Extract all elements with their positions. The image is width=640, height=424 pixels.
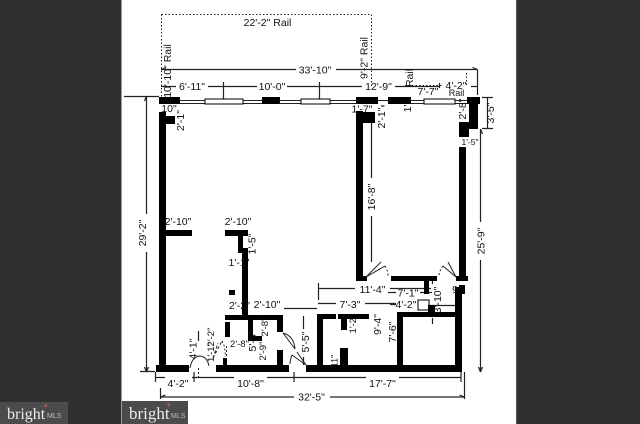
svg-text:10'-10" Rail: 10'-10" Rail [162,44,174,98]
svg-text:7'-6": 7'-6" [387,321,399,342]
svg-text:6'-11": 6'-11" [179,81,205,93]
svg-text:11": 11" [330,355,340,368]
svg-text:2'-10": 2'-10" [254,299,281,311]
svg-text:16'-8": 16'-8" [366,183,378,210]
svg-text:9: 9 [452,284,458,296]
svg-text:2'-8": 2'-8" [457,98,469,119]
svg-text:9'-4": 9'-4" [372,314,384,335]
svg-text:MLS: MLS [171,413,186,420]
svg-text:32'-5": 32'-5" [298,392,325,404]
svg-text:7'-1": 7'-1" [398,288,419,300]
svg-text:7'-7": 7'-7" [418,86,439,98]
svg-text:2'-2": 2'-2" [229,300,250,312]
svg-text:9'-2" Rail: 9'-2" Rail [359,37,371,79]
svg-text:25'-9": 25'-9" [476,227,488,254]
svg-text:1': 1' [402,105,414,113]
svg-text:2'-9": 2'-9" [258,342,269,361]
svg-text:Rail: Rail [449,88,465,98]
svg-text:3'-10": 3'-10" [432,286,444,313]
svg-text:1'-5": 1'-5" [247,233,259,254]
svg-text:11'-4": 11'-4" [360,284,386,296]
svg-text:17'-7": 17'-7" [369,378,396,390]
svg-text:1'-5": 1'-5" [462,137,479,147]
svg-text:2'-10": 2'-10" [165,216,192,228]
svg-text:10'-0": 10'-0" [259,81,286,93]
svg-text:2'-10": 2'-10" [225,216,252,228]
svg-text:1'-2": 1'-2" [348,315,359,334]
svg-text:7'-3": 7'-3" [340,299,361,311]
svg-text:29'-2": 29'-2" [137,219,149,246]
svg-text:1'-7": 1'-7" [352,104,373,116]
svg-text:1'-1": 1'-1" [206,343,217,362]
svg-text:3'-5": 3'-5" [485,102,497,123]
svg-text:4'-1": 4'-1" [188,338,200,359]
svg-text:22'-2" Rail: 22'-2" Rail [244,17,292,29]
svg-text:Rail: Rail [404,69,416,87]
svg-text:2'-1": 2'-1" [376,107,388,128]
svg-text:2'-1": 2'-1" [175,110,187,131]
svg-text:bright: bright [7,406,46,423]
svg-text:4'-2": 4'-2" [168,378,189,390]
svg-text:4'-2": 4'-2" [396,299,417,311]
svg-text:2'-8": 2'-8" [260,318,271,337]
svg-text:1'-1": 1'-1" [229,257,250,269]
svg-text:10'-8": 10'-8" [237,378,264,390]
svg-text:bright: bright [129,404,170,423]
svg-text:MLS: MLS [47,413,62,420]
svg-text:33'-10": 33'-10" [299,65,332,77]
svg-text:5'-5": 5'-5" [300,331,312,352]
svg-text:12'-9": 12'-9" [365,81,392,93]
